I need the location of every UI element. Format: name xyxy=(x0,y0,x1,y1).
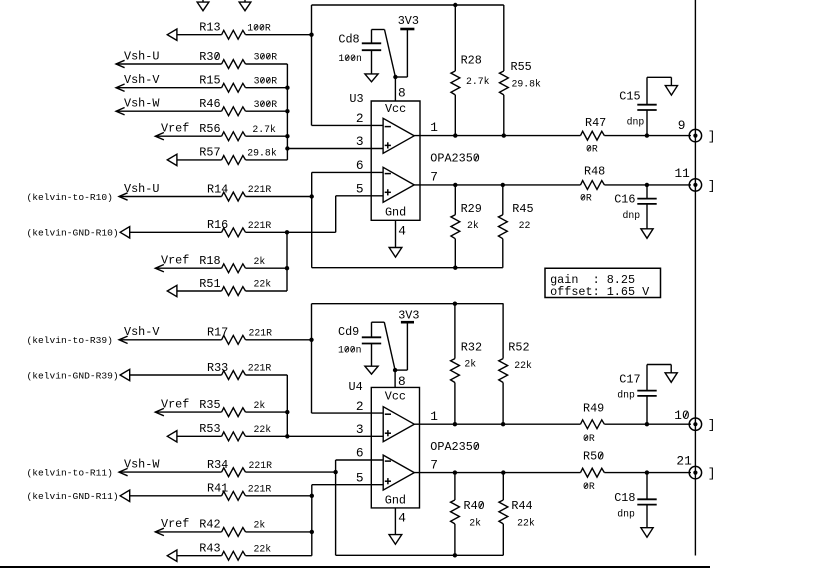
svg-text:OPA2350: OPA2350 xyxy=(430,440,480,454)
svg-text:R18: R18 xyxy=(199,254,220,268)
resistor R55 xyxy=(499,60,531,95)
wire R42 row xyxy=(155,531,311,533)
op-amp U3 amp B plus xyxy=(385,189,391,195)
resistor R46 xyxy=(199,97,245,116)
svg-text:Vsh-W: Vsh-W xyxy=(124,97,160,111)
resistor R50 xyxy=(581,450,605,477)
value 2k (R29) xyxy=(467,220,479,231)
op-amp U4 amp A plus xyxy=(385,430,391,436)
ground Cd8 xyxy=(365,74,378,82)
label bracket 9 xyxy=(708,129,716,144)
value 2k (R40) xyxy=(469,517,481,528)
wire R44 branch xyxy=(502,473,504,556)
svg-text:R30: R30 xyxy=(199,50,220,64)
svg-text:R42: R42 xyxy=(199,518,220,532)
value 221R (R34) xyxy=(249,460,273,471)
node R35 junction xyxy=(285,410,289,414)
pin 1 U3 xyxy=(430,120,438,135)
wire R15 row xyxy=(116,87,287,89)
pin 5 U4 xyxy=(356,470,364,485)
pin 8 U3 xyxy=(398,86,406,101)
svg-text:(kelvin-to-R11): (kelvin-to-R11) xyxy=(27,467,113,478)
svg-text:offset: 1.65 V: offset: 1.65 V xyxy=(550,285,650,299)
svg-text:R56: R56 xyxy=(199,122,220,136)
wire R57 row xyxy=(177,159,288,161)
svg-text:R41: R41 xyxy=(207,482,228,496)
svg-text:]: ] xyxy=(708,129,716,144)
svg-text:0R: 0R xyxy=(583,481,595,492)
pin 7 U3 xyxy=(430,170,438,185)
svg-text:(kelvin-GND-R39): (kelvin-GND-R39) xyxy=(27,370,119,381)
svg-text:R44: R44 xyxy=(511,499,532,513)
op-amp U3 amp B triangle xyxy=(383,167,414,202)
value dnp (C18) xyxy=(617,509,635,520)
label bracket 10 xyxy=(708,418,716,433)
pin 2 U3 xyxy=(356,111,364,126)
net label (kelvin-to-R10) xyxy=(27,192,113,203)
op-amp U4 box xyxy=(371,387,419,508)
svg-text:R13: R13 xyxy=(199,21,220,35)
node R32 bottom junction xyxy=(453,422,457,426)
wire R28 branch xyxy=(454,5,456,136)
net label Vref xyxy=(161,397,189,411)
svg-text:6: 6 xyxy=(356,446,364,461)
svg-text:2: 2 xyxy=(356,399,364,414)
value 221R (R16) xyxy=(248,220,272,231)
net label Vsh-U xyxy=(124,49,159,63)
ground U3 pin4 xyxy=(389,248,402,258)
svg-text:5: 5 xyxy=(356,470,364,485)
value 29.8k (R57) xyxy=(247,148,277,159)
svg-text:OPA2350: OPA2350 xyxy=(430,152,480,166)
sheet pin arrow R33 row xyxy=(120,369,130,380)
label U3 xyxy=(349,92,363,106)
sheet pin arrow R43 row xyxy=(167,550,177,561)
wire U3 pin4 stem xyxy=(395,220,397,247)
value 22k (R44) xyxy=(517,517,535,528)
svg-text:R55: R55 xyxy=(511,60,532,74)
capacitor C18 xyxy=(614,491,657,505)
value 2k (R35) xyxy=(254,400,266,411)
svg-text:R34: R34 xyxy=(207,458,228,472)
svg-text:Vref: Vref xyxy=(161,122,189,136)
value 100R (R13) xyxy=(247,22,271,33)
wire R34 row xyxy=(119,471,336,473)
node R13 junction xyxy=(309,33,313,37)
net arrow R15 row xyxy=(116,84,125,91)
svg-text:R16: R16 xyxy=(207,218,228,232)
power 3V3 (U4) xyxy=(398,308,419,322)
node R18 junction xyxy=(285,266,289,270)
svg-text:22k: 22k xyxy=(514,360,532,371)
pin 5 U3 xyxy=(356,182,364,197)
value 2k (R32) xyxy=(464,359,476,370)
svg-text:100n: 100n xyxy=(338,345,362,356)
svg-text:21: 21 xyxy=(676,454,692,469)
pin 10 connector xyxy=(674,408,701,431)
svg-text:C16: C16 xyxy=(614,193,635,207)
wire R52 branch xyxy=(502,304,504,425)
resistor R35 xyxy=(199,398,245,417)
op-amp U4 amp B triangle xyxy=(383,455,414,490)
capacitor Cd8 xyxy=(338,33,381,51)
wire R14 row xyxy=(119,196,312,198)
wire V bus R16-R51 xyxy=(286,232,288,291)
resistor R28 xyxy=(451,53,482,95)
resistor R34 xyxy=(207,458,246,477)
svg-text:2.7k: 2.7k xyxy=(466,76,490,87)
wire R32 branch xyxy=(454,304,456,425)
node R29 bottom junction xyxy=(453,266,457,270)
op-amp U3 box xyxy=(371,101,420,220)
label U4 Gnd xyxy=(385,493,406,507)
ground C15 xyxy=(665,86,677,96)
resistor R43 xyxy=(199,542,245,561)
svg-text:U4: U4 xyxy=(349,380,363,394)
svg-text:100n: 100n xyxy=(338,53,362,64)
svg-text:3: 3 xyxy=(356,134,364,149)
net arrow R30 row xyxy=(116,60,125,67)
value 2.7k (R28) xyxy=(466,76,490,87)
wire R45 branch xyxy=(502,185,504,268)
value 300R (R15) xyxy=(254,75,278,86)
wire C15 top lead xyxy=(647,77,671,104)
svg-text:2k: 2k xyxy=(254,256,266,267)
pin 4 U3 xyxy=(398,224,406,239)
op-amp U3 amp A plus xyxy=(385,142,391,148)
ground U4 pin4 xyxy=(389,535,402,545)
svg-text:29.8k: 29.8k xyxy=(247,148,277,159)
svg-text:C17: C17 xyxy=(619,373,640,387)
ground C18 xyxy=(641,528,653,538)
svg-text:R43: R43 xyxy=(199,542,220,556)
label bracket 21 xyxy=(708,466,716,481)
pin 1 U4 xyxy=(430,409,438,424)
svg-text:R51: R51 xyxy=(199,277,220,291)
resistor R32 xyxy=(451,341,483,383)
svg-text:R46: R46 xyxy=(199,97,220,111)
wire R56 row xyxy=(155,135,287,137)
resistor R42 xyxy=(199,518,245,537)
node C18 junction xyxy=(645,470,649,474)
svg-text:7: 7 xyxy=(430,458,438,473)
svg-text:2k: 2k xyxy=(464,359,476,370)
resistor R44 xyxy=(499,499,533,524)
svg-text:]: ] xyxy=(708,178,716,193)
pin 8 U4 xyxy=(398,374,406,389)
value 100n (Cd8) xyxy=(338,53,362,64)
node C17 junction xyxy=(645,422,649,426)
wire U4 pin6 vertical xyxy=(336,460,504,555)
net arrow R56 row xyxy=(155,133,164,140)
resistor R53 xyxy=(199,422,245,441)
value 29.8k (R55) xyxy=(512,79,542,90)
node R34 junction xyxy=(333,470,337,474)
svg-text:R35: R35 xyxy=(199,398,220,412)
capacitor C17 xyxy=(619,373,656,396)
value 0R (R50) xyxy=(583,481,595,492)
net arrow R46 row xyxy=(116,108,125,115)
label U4 xyxy=(349,380,363,394)
wire Cd9 top lead xyxy=(372,322,396,370)
capacitor Cd9 xyxy=(338,325,381,344)
svg-text:Vcc: Vcc xyxy=(385,390,406,404)
svg-text:9: 9 xyxy=(678,118,686,133)
wire R51 row xyxy=(177,290,287,292)
pin 4 U4 xyxy=(398,511,406,526)
resistor R30 xyxy=(199,50,245,69)
wire Cd9 bottom lead xyxy=(371,344,373,367)
svg-text:dnp: dnp xyxy=(623,210,641,221)
label U3 Vcc xyxy=(385,102,406,116)
wire R35 row xyxy=(155,411,287,413)
net label Vref xyxy=(161,254,189,268)
svg-text:Vsh-W: Vsh-W xyxy=(124,457,160,471)
sheet pin arrow R13 row xyxy=(167,29,177,40)
value 100n (Cd9) xyxy=(338,345,362,356)
resistor R15 xyxy=(199,74,245,93)
svg-text:dnp: dnp xyxy=(617,389,635,400)
wire left vertical to U3 pin2 xyxy=(312,5,384,125)
label U4 value OPA2350 xyxy=(430,440,480,454)
svg-text:1: 1 xyxy=(430,409,438,424)
svg-text:300R: 300R xyxy=(254,75,278,86)
op-amp U3 amp A triangle xyxy=(383,118,414,153)
svg-text:22k: 22k xyxy=(254,279,272,290)
svg-text:Vref: Vref xyxy=(161,397,189,411)
wire C18 bottom lead xyxy=(646,505,648,528)
wire U3 pin1 output xyxy=(414,135,691,137)
resistor R41 xyxy=(207,482,246,501)
wire top rail 3V3 net xyxy=(312,4,504,6)
wire left vertical to U4 pin2 xyxy=(312,304,384,413)
wire R41 row xyxy=(130,495,312,497)
svg-text:dnp: dnp xyxy=(617,509,635,520)
node R17 junction xyxy=(309,338,313,342)
value 221R (R33) xyxy=(248,363,272,374)
sheet boundary vertical line xyxy=(694,0,696,556)
svg-text:R53: R53 xyxy=(199,422,220,436)
svg-text:R32: R32 xyxy=(461,341,482,355)
svg-text:Vref: Vref xyxy=(161,517,189,531)
pin 11 connector xyxy=(675,166,702,191)
sheet pin arrow R41 row xyxy=(120,490,130,501)
wire U4 pin8 stem xyxy=(394,370,396,387)
resistor R57 xyxy=(199,146,245,165)
net label Vsh-V xyxy=(124,73,160,87)
pin 3 U4 xyxy=(356,422,364,437)
ground C17 xyxy=(665,373,677,383)
resistor R48 xyxy=(581,165,606,190)
svg-text:(kelvin-to-R39): (kelvin-to-R39) xyxy=(27,335,113,346)
wire Cd8 bottom lead xyxy=(371,50,373,74)
pin 6 U4 xyxy=(356,446,364,461)
node R45 top junction xyxy=(501,183,505,187)
svg-text:R57: R57 xyxy=(199,146,220,160)
svg-text:dnp: dnp xyxy=(627,116,645,127)
wire U3 pin3 xyxy=(287,148,383,150)
node U3 pin8 junction xyxy=(393,75,397,79)
value 300R (R30) xyxy=(254,52,278,63)
resistor R52 xyxy=(499,341,530,383)
net arrow R34 row xyxy=(119,468,128,475)
pin 2 U4 xyxy=(356,399,364,414)
svg-text:300R: 300R xyxy=(254,52,278,63)
resistor R16 xyxy=(207,218,246,237)
capacitor C15 xyxy=(619,90,656,111)
wire C15 bottom lead xyxy=(646,110,648,136)
op-amp U4 amp B minus xyxy=(385,460,391,462)
svg-text:R48: R48 xyxy=(584,165,605,179)
net arrow R17 row xyxy=(119,336,128,343)
svg-text:C15: C15 xyxy=(619,90,640,104)
op-amp U4 amp B plus xyxy=(385,478,391,484)
svg-text:3V3: 3V3 xyxy=(398,308,419,322)
svg-text:R29: R29 xyxy=(461,202,482,216)
ground Cd9 xyxy=(365,366,378,374)
resistor R29 xyxy=(451,202,482,239)
wire R43 row xyxy=(177,555,312,557)
node R28 top junction xyxy=(453,3,457,7)
resistor R47 xyxy=(581,116,607,140)
node pin3 branch junction xyxy=(285,146,289,150)
wire R16 row xyxy=(130,231,336,233)
net label (kelvin-to-R39) xyxy=(27,335,113,346)
svg-text:R15: R15 xyxy=(199,74,220,88)
net label (kelvin-GND-R39) xyxy=(27,370,119,381)
node R52 bottom junction xyxy=(501,422,505,426)
svg-text:221R: 221R xyxy=(249,328,273,339)
net label (kelvin-to-R11) xyxy=(27,467,113,478)
value 2k (R18) xyxy=(254,256,266,267)
wire V bus R33-R53 xyxy=(286,375,288,436)
value 22k (R51) xyxy=(254,279,272,290)
node C16 junction xyxy=(645,183,649,187)
op-amp U4 amp A minus xyxy=(385,413,391,415)
pin 3 U3 xyxy=(356,134,364,149)
op-amp U3 amp B minus xyxy=(385,173,391,175)
svg-text:22: 22 xyxy=(519,220,531,231)
svg-text:R17: R17 xyxy=(207,326,228,340)
node R32 top junction xyxy=(453,302,457,306)
wire R13 row xyxy=(177,34,312,36)
pin 6 U3 xyxy=(356,158,364,173)
value 221R (R41) xyxy=(248,484,272,495)
svg-text:(kelvin-GND-R10): (kelvin-GND-R10) xyxy=(27,228,119,239)
wire U3 pin8 stem xyxy=(394,77,396,101)
net arrow R14 row xyxy=(119,193,128,200)
note gain/offset box xyxy=(545,268,661,299)
svg-text:R33: R33 xyxy=(207,361,228,375)
svg-text:2k: 2k xyxy=(254,520,266,531)
ground stub B top xyxy=(239,0,251,11)
svg-text:22k: 22k xyxy=(254,424,272,435)
value 0R (R47) xyxy=(586,144,598,155)
svg-text:C18: C18 xyxy=(614,491,635,505)
net label Vref xyxy=(161,122,189,136)
wire R33 row xyxy=(130,374,288,376)
node R41 junction xyxy=(310,494,314,498)
svg-text:221R: 221R xyxy=(248,220,272,231)
svg-text:Vsh-U: Vsh-U xyxy=(124,49,159,63)
wire R46 row xyxy=(116,110,287,112)
node R53 junction xyxy=(285,434,289,438)
sheet pin arrow R16 row xyxy=(120,227,130,238)
value dnp (C15) xyxy=(627,116,645,127)
sheet pin arrow R51 row xyxy=(167,285,177,296)
wire U4 pin7 output xyxy=(414,472,691,474)
ground C16 xyxy=(641,229,653,239)
label U4 Vcc xyxy=(385,390,406,404)
wire U4 pin1 output xyxy=(414,423,691,425)
pin 9 connector xyxy=(678,118,702,142)
svg-text:Gnd: Gnd xyxy=(385,206,406,220)
svg-text:3V3: 3V3 xyxy=(398,14,419,28)
net label (kelvin-GND-R11) xyxy=(27,491,119,502)
resistor R45 xyxy=(498,202,533,239)
wire C16 bottom lead xyxy=(646,204,648,229)
resistor R18 xyxy=(199,254,245,273)
svg-text:R47: R47 xyxy=(585,116,606,130)
node R15 junction xyxy=(285,86,289,90)
svg-text:7: 7 xyxy=(430,170,438,185)
wire R29 branch xyxy=(454,185,456,268)
node R16 branch junction xyxy=(285,230,289,234)
svg-text:(kelvin-GND-R11): (kelvin-GND-R11) xyxy=(27,491,119,502)
wire C18 top lead xyxy=(646,473,648,500)
svg-text:]: ] xyxy=(708,418,716,433)
svg-text:Vsh-V: Vsh-V xyxy=(124,325,160,339)
svg-text:R52: R52 xyxy=(508,341,529,355)
wire U4 pin5 vertical xyxy=(312,485,383,556)
svg-text:Vref: Vref xyxy=(161,254,189,268)
svg-text:221R: 221R xyxy=(249,460,273,471)
node R29 top junction xyxy=(453,183,457,187)
value dnp (C17) xyxy=(617,389,635,400)
net arrow R42 row xyxy=(155,528,164,535)
resistor R40 xyxy=(451,499,485,524)
svg-text:Vcc: Vcc xyxy=(385,102,406,116)
value 0R (R49) xyxy=(583,433,595,444)
svg-text:2.7k: 2.7k xyxy=(252,124,276,135)
wire R18 row xyxy=(155,267,287,269)
svg-text:2k: 2k xyxy=(469,517,481,528)
wire C16 top lead xyxy=(646,185,648,199)
op-amp U4 amp A triangle xyxy=(383,407,414,442)
svg-text:R49: R49 xyxy=(583,402,604,416)
svg-text:Cd8: Cd8 xyxy=(338,33,359,47)
ground stub A top xyxy=(197,0,209,11)
node R40 top junction xyxy=(453,470,457,474)
wire R30 row xyxy=(116,63,287,65)
svg-text:Vsh-V: Vsh-V xyxy=(124,73,160,87)
wire U3 pin7 output xyxy=(414,184,691,186)
node R40 bottom junction xyxy=(453,553,457,557)
svg-text:2k: 2k xyxy=(467,220,479,231)
wire lower rail 3V3 net xyxy=(312,303,504,305)
svg-text:11: 11 xyxy=(675,166,691,181)
net label Vsh-U xyxy=(124,182,159,196)
value dnp (C16) xyxy=(623,210,641,221)
net label Vsh-W xyxy=(124,97,160,111)
pin 21 connector xyxy=(676,454,701,479)
svg-text:4: 4 xyxy=(398,511,406,526)
node R42 junction xyxy=(310,530,314,534)
op-amp U3 amp A minus xyxy=(385,126,391,128)
net arrow R18 row xyxy=(155,265,164,272)
label U3 Gnd xyxy=(385,206,406,220)
svg-text:1: 1 xyxy=(430,120,438,135)
